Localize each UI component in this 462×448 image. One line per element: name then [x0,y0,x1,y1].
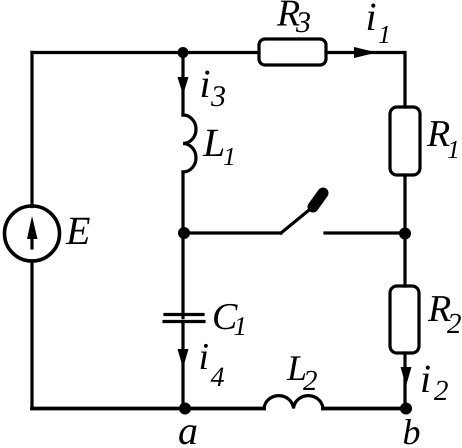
svg-text:b: b [403,412,421,448]
svg-text:3: 3 [210,80,226,113]
svg-text:4: 4 [211,362,225,393]
svg-text:1: 1 [447,135,460,164]
svg-text:a: a [178,408,198,448]
svg-text:i: i [199,336,210,378]
svg-text:1: 1 [223,142,236,171]
svg-text:1: 1 [234,311,248,341]
svg-text:3: 3 [295,6,311,39]
svg-text:i: i [420,356,431,401]
svg-text:i: i [200,61,211,106]
svg-text:2: 2 [447,308,462,340]
svg-text:2: 2 [434,375,449,407]
svg-text:1: 1 [378,20,391,49]
svg-text:i: i [366,0,377,39]
svg-text:L: L [202,120,225,165]
svg-text:E: E [65,208,90,253]
svg-text:2: 2 [303,365,318,397]
